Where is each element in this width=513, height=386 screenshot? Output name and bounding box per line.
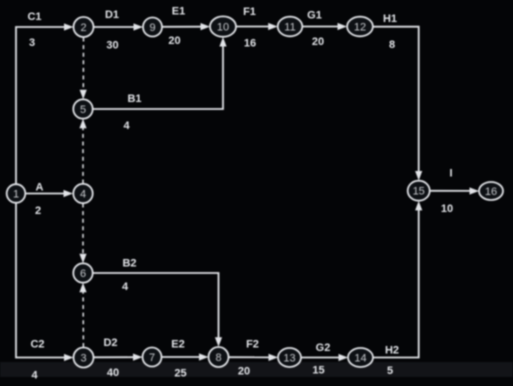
wire F1 10-11 <box>236 26 269 28</box>
node 11 <box>278 17 303 37</box>
svg-text:10: 10 <box>217 22 229 34</box>
wire G1 11-12 <box>303 26 339 28</box>
arrowhead into node 4 <box>64 190 74 197</box>
node 10 <box>210 16 236 36</box>
arrowhead into node 14 <box>339 354 349 361</box>
svg-text:2: 2 <box>35 205 41 217</box>
dashed dummy 3-6 <box>82 292 84 348</box>
svg-text:6: 6 <box>80 268 86 280</box>
svg-text:14: 14 <box>354 353 366 365</box>
wire F2 8-13 <box>229 356 270 358</box>
node 16 <box>479 182 503 200</box>
node 13 <box>278 348 301 367</box>
svg-text:3: 3 <box>29 37 35 49</box>
arrowhead into node 2 <box>64 23 74 30</box>
node 3 <box>74 348 94 368</box>
svg-text:B2: B2 <box>122 258 136 270</box>
svg-text:F1: F1 <box>243 6 256 18</box>
arrowhead into node 5 bottom <box>79 119 86 129</box>
svg-text:10: 10 <box>441 203 453 215</box>
dashed dummy 4-5 <box>82 127 84 184</box>
svg-text:13: 13 <box>283 353 295 365</box>
svg-text:12: 12 <box>354 22 366 34</box>
svg-text:15: 15 <box>413 186 425 198</box>
svg-text:40: 40 <box>107 367 119 379</box>
wire D2 3-7 <box>94 356 134 358</box>
node 15 <box>408 181 430 201</box>
wire A 1-4 <box>26 193 65 195</box>
svg-text:7: 7 <box>149 352 155 364</box>
svg-text:20: 20 <box>238 366 250 378</box>
svg-text:4: 4 <box>122 281 129 293</box>
svg-text:20: 20 <box>168 35 180 47</box>
svg-text:A: A <box>36 182 44 194</box>
svg-text:16: 16 <box>485 186 497 198</box>
arrowhead into node 13 <box>269 354 279 361</box>
arrowhead into node 12 <box>338 23 348 30</box>
node 9 <box>143 18 162 37</box>
wire D1 2-9 <box>94 26 135 28</box>
svg-text:8: 8 <box>215 352 221 364</box>
arrowhead into node 5 top <box>80 90 87 100</box>
node 5 <box>73 99 92 118</box>
wire I 15-16 <box>430 190 470 192</box>
node 7 <box>143 348 162 367</box>
svg-text:C2: C2 <box>30 339 44 351</box>
svg-text:4: 4 <box>123 120 130 132</box>
arrowhead into node 16 <box>470 187 480 194</box>
svg-text:G2: G2 <box>316 342 331 354</box>
wire E1 9-10 <box>162 26 201 28</box>
wire B2 elbow 6-8 <box>93 273 219 338</box>
svg-text:D1: D1 <box>105 9 119 21</box>
node 4 <box>73 184 92 203</box>
wire H2 elbow 14-15 <box>373 210 419 358</box>
dashed dummy 4-6 <box>82 204 84 255</box>
dashed dummy 2-5 <box>82 38 84 92</box>
node 1 <box>7 184 26 203</box>
svg-text:16: 16 <box>244 38 256 50</box>
wire G2 13-14 <box>301 357 339 359</box>
svg-text:11: 11 <box>284 22 295 34</box>
svg-text:15: 15 <box>312 365 324 377</box>
svg-text:5: 5 <box>80 104 86 116</box>
svg-text:H1: H1 <box>383 13 397 25</box>
arrowhead into node 8 <box>199 353 209 360</box>
node 8 <box>209 347 229 367</box>
wire C2 elbow 1-3 <box>16 202 65 358</box>
svg-text:20: 20 <box>312 36 324 48</box>
svg-text:25: 25 <box>174 368 186 380</box>
arrowhead into node 11 <box>268 23 278 30</box>
svg-text:H2: H2 <box>385 345 399 357</box>
arrowhead into node 7 <box>133 354 143 361</box>
node 6 <box>73 263 92 282</box>
svg-text:9: 9 <box>149 22 155 34</box>
wire C1 elbow 1-2 <box>16 27 65 185</box>
svg-text:2: 2 <box>80 22 86 34</box>
svg-text:G1: G1 <box>307 10 322 22</box>
wire E2 7-8 <box>162 356 200 358</box>
svg-text:C1: C1 <box>27 11 41 23</box>
svg-text:4: 4 <box>80 189 86 201</box>
arrowhead into node 6 bottom <box>79 283 86 293</box>
svg-text:I: I <box>449 168 452 180</box>
arrowhead into node 8 top <box>215 337 222 347</box>
svg-text:3: 3 <box>80 353 86 365</box>
wire B1 elbow 5-10 <box>93 46 223 109</box>
wire H1 elbow 12-15 <box>373 27 419 172</box>
svg-text:E2: E2 <box>171 339 184 351</box>
arrowhead into node 15 top <box>415 171 422 181</box>
svg-text:E1: E1 <box>172 6 185 18</box>
node 2 <box>74 17 94 37</box>
svg-text:B1: B1 <box>127 93 141 105</box>
node 14 <box>348 348 373 367</box>
svg-text:D2: D2 <box>103 337 117 349</box>
arrowhead into node 3 <box>64 354 74 361</box>
node 12 <box>347 17 373 37</box>
svg-text:8: 8 <box>389 39 395 51</box>
arrowhead into node 10 bottom <box>219 37 226 47</box>
svg-text:1: 1 <box>13 189 19 201</box>
arrowhead into node 10 <box>201 23 211 30</box>
svg-text:5: 5 <box>387 365 393 377</box>
arrowhead into node 9 <box>134 23 144 30</box>
svg-text:F2: F2 <box>246 339 259 351</box>
svg-text:4: 4 <box>31 370 38 382</box>
svg-text:30: 30 <box>106 40 118 52</box>
arrowhead into node 15 bottom <box>415 201 422 211</box>
bottom subtle band <box>0 362 513 377</box>
arrowhead into node 6 top <box>79 254 86 263</box>
